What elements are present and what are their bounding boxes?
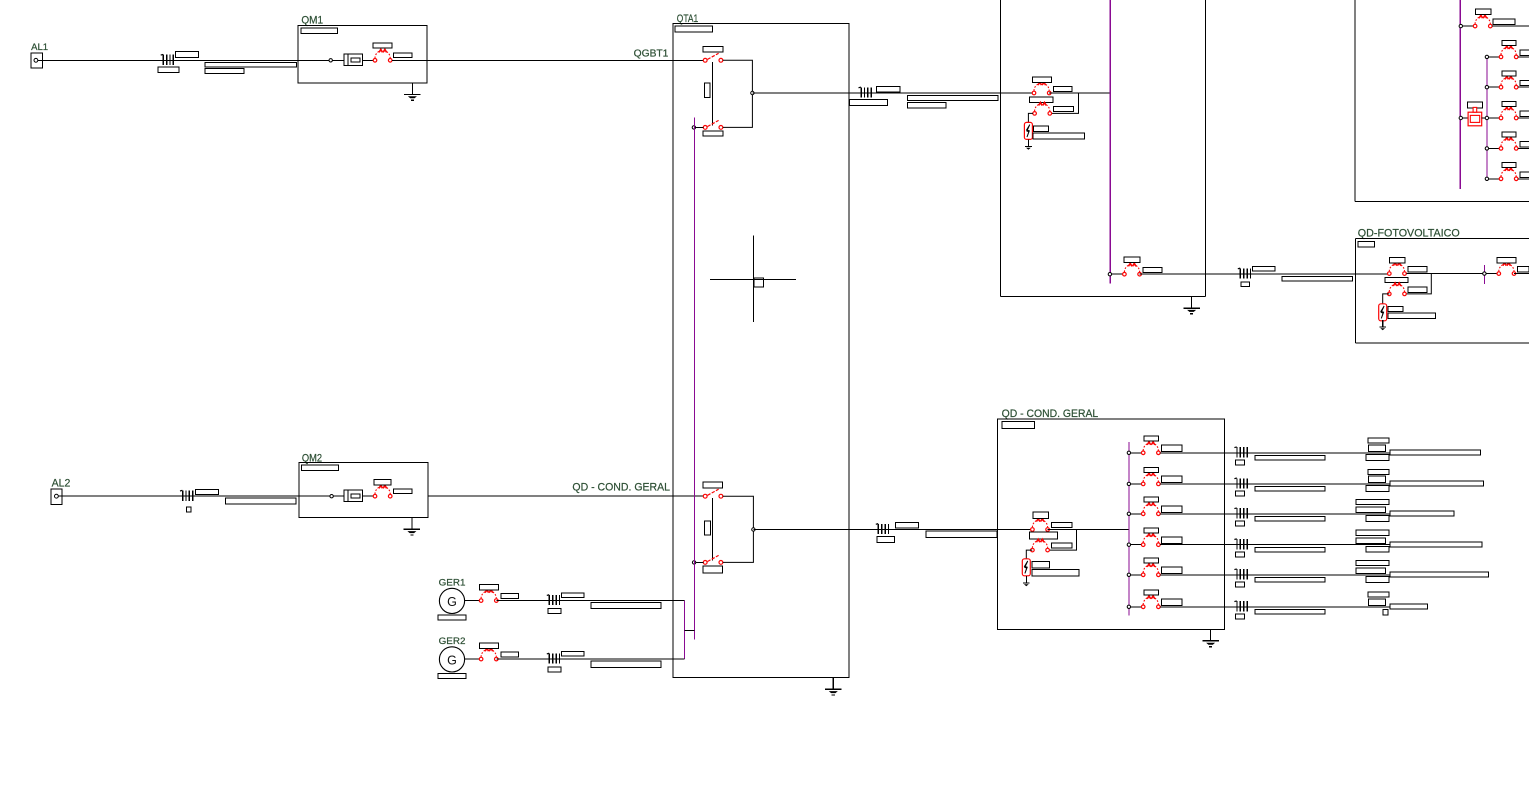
ground DPS fotovoltaico xyxy=(1379,320,1386,330)
transfer switch interlock link xyxy=(712,62,714,125)
panel QTA1 label xyxy=(677,13,698,25)
value label box xyxy=(548,609,561,614)
value label box xyxy=(1161,476,1182,482)
wire upper row 6 out xyxy=(1518,178,1529,180)
value label box xyxy=(1390,481,1484,486)
value label box xyxy=(1032,570,1079,577)
wire fotovoltaico main to stub xyxy=(1406,273,1497,275)
value label box xyxy=(501,652,519,657)
generator GER1 label xyxy=(439,578,466,589)
wire QD-COND row 1 in xyxy=(1131,452,1142,454)
value label box xyxy=(1368,599,1385,606)
junction on AL2 feeder xyxy=(330,495,333,498)
value label box xyxy=(1388,313,1435,318)
value label box xyxy=(1520,80,1529,85)
panel QTA1 enclosure xyxy=(673,24,849,678)
panel QD-FOTOVOLTAICO label xyxy=(1358,228,1460,240)
value label box xyxy=(1030,97,1054,103)
value label box xyxy=(1502,162,1516,167)
ground DPS QD-COND xyxy=(1023,576,1030,586)
svg-text:AL2: AL2 xyxy=(52,478,71,490)
bus QGBT distribution bus xyxy=(1109,0,1111,284)
junction fotovoltaico stub xyxy=(1483,272,1486,275)
value label box xyxy=(1356,538,1386,544)
transfer switch lower coil box xyxy=(705,521,711,535)
value label box xyxy=(703,566,723,573)
value label box xyxy=(1368,469,1389,474)
value label box xyxy=(1356,499,1389,504)
value label box xyxy=(1390,450,1481,455)
wire QD-COND row 6 out xyxy=(1160,606,1428,608)
value label box xyxy=(186,507,191,512)
current transformer QD-COND input xyxy=(876,524,889,535)
value label box xyxy=(1255,456,1325,461)
junction QGBT bus to fotovoltaico xyxy=(1108,273,1111,276)
current transformer GER2 xyxy=(547,653,560,664)
value label box xyxy=(226,498,297,504)
value label box xyxy=(1390,542,1482,547)
value label box xyxy=(195,490,218,495)
value label box xyxy=(1502,132,1516,137)
junction on AL1 feeder xyxy=(329,59,332,62)
svg-text:QD-FOTOVOLTAICO: QD-FOTOVOLTAICO xyxy=(1358,228,1460,240)
value label box xyxy=(1520,50,1529,55)
value label box xyxy=(877,537,895,543)
junction QTA1 output xyxy=(751,91,754,94)
transfer switch coil box xyxy=(704,83,710,97)
circuit breaker QD-COND row 5 xyxy=(1141,564,1160,577)
value label box xyxy=(1385,278,1408,283)
energy meter kWh QM1 xyxy=(344,54,363,65)
wire GER1 breaker to bus xyxy=(496,600,684,602)
wire QD-COND row 4 out xyxy=(1160,544,1482,546)
panel QGBT enclosure xyxy=(1001,0,1206,297)
circuit breaker QD-COND row 1 xyxy=(1141,442,1160,455)
value label box xyxy=(158,67,179,73)
wire upper row 4 out xyxy=(1518,117,1529,119)
value label box xyxy=(1390,511,1454,516)
value label box xyxy=(374,480,391,486)
value label box xyxy=(703,131,723,136)
junction QD-COND bus row 6 xyxy=(1127,605,1130,608)
value label box xyxy=(1143,267,1162,272)
svg-text:QM1: QM1 xyxy=(301,15,323,27)
circuit breaker QD-COND row 4 xyxy=(1141,534,1160,547)
junction standby input QTA1 xyxy=(692,126,695,129)
value label box xyxy=(703,46,723,52)
energy meter kWh QM2 xyxy=(344,490,363,501)
value label box xyxy=(438,615,466,620)
current transformer GER1 xyxy=(547,595,560,606)
value label box xyxy=(1252,266,1274,271)
value label box xyxy=(1358,242,1375,247)
wire QTA1 output to QD-COND.GERAL xyxy=(753,529,1032,531)
value label box xyxy=(438,673,466,678)
value label box xyxy=(1356,507,1386,513)
current transformer QD-COND row 5 xyxy=(1234,569,1247,580)
generator GER2 label xyxy=(439,636,466,647)
wire QGBT bus to breaker xyxy=(1112,273,1123,275)
transfer switch QTA1 standby contact xyxy=(703,120,723,129)
wire QD-COND row 3 in xyxy=(1131,513,1142,515)
circuit breaker fotovoltaico DPS xyxy=(1388,283,1407,296)
value label box xyxy=(1366,486,1389,492)
svg-text:QGBT1: QGBT1 xyxy=(634,49,669,60)
value label box xyxy=(1366,516,1389,522)
value label box xyxy=(1235,582,1244,587)
value label box xyxy=(1366,577,1389,583)
node AL1 label xyxy=(31,42,48,53)
value label box xyxy=(1144,436,1159,441)
value label box xyxy=(1124,257,1140,262)
current transformer QD-COND row 2 xyxy=(1234,478,1247,489)
wire fotovoltaico feeder xyxy=(1140,273,1390,275)
value label box xyxy=(591,602,661,608)
value label box xyxy=(1053,107,1073,112)
junction QD-COND bus row 4 xyxy=(1127,543,1130,546)
value label box xyxy=(479,585,498,590)
surge protector DPS QGBT xyxy=(1024,122,1032,139)
wire DPS down link xyxy=(1028,113,1033,122)
value label box xyxy=(1241,282,1249,287)
value label box xyxy=(1502,71,1516,76)
value label box xyxy=(1408,267,1427,273)
value label box xyxy=(896,523,919,528)
panel QM2 label xyxy=(302,453,322,465)
circuit breaker QD-FOTOVOLTAICO main xyxy=(1388,263,1407,276)
circuit breaker QM1 xyxy=(373,49,392,62)
wire meter to breaker QM2 xyxy=(363,495,374,497)
transfer switch QTA1 lower standby contact xyxy=(703,555,723,564)
surge protector DPS QD-COND xyxy=(1022,559,1030,576)
current transformer QD-COND row 1 xyxy=(1234,447,1247,458)
circuit breaker QD-COND main xyxy=(1031,519,1050,532)
wire DPS down link xyxy=(1383,294,1390,304)
value label box xyxy=(501,594,519,599)
value label box xyxy=(1255,610,1325,615)
value label box xyxy=(1368,476,1385,483)
panel QM1 enclosure xyxy=(298,26,427,83)
wire AL2 to QM2 xyxy=(58,495,344,497)
bus generator standby riser xyxy=(693,118,695,640)
value label box xyxy=(1161,506,1182,512)
circuit breaker QD-COND DPS xyxy=(1031,539,1050,552)
node AL1 supply terminal xyxy=(31,53,43,68)
value label box xyxy=(907,96,998,101)
value label box xyxy=(1144,590,1159,595)
ground QD-COND.GERAL xyxy=(1202,629,1218,646)
node AL2 supply terminal xyxy=(51,489,62,505)
value label box xyxy=(1144,558,1159,563)
value label box xyxy=(1390,604,1428,609)
junction upper bus row 3 xyxy=(1485,86,1488,89)
value label box xyxy=(1235,460,1244,465)
junction QD-COND bus row 3 xyxy=(1127,512,1130,515)
panel QD-COND.GERAL enclosure xyxy=(998,419,1225,629)
value label box xyxy=(1235,521,1244,526)
wire GER2 to breaker xyxy=(465,658,480,660)
value label box xyxy=(1002,421,1035,428)
wire upper row 1 out xyxy=(1492,25,1529,27)
wire upper row 3 out xyxy=(1518,86,1529,88)
wire bus tie link xyxy=(684,629,694,631)
panel QD-FOTOVOLTAICO enclosure xyxy=(1356,239,1529,344)
surge protector DPS fotovoltaico xyxy=(1379,304,1387,321)
value label box xyxy=(1502,102,1516,107)
value label box xyxy=(205,68,244,73)
wire DPS down link xyxy=(1026,550,1032,559)
bus upper main bus xyxy=(1459,0,1461,189)
value label box xyxy=(1144,467,1159,472)
junction QTA1 lower output xyxy=(752,528,755,531)
bus upper sub bus xyxy=(1486,56,1488,181)
svg-text:G: G xyxy=(447,653,457,667)
value label box xyxy=(1161,567,1182,573)
wire fotovoltaico DPS branch link xyxy=(1406,274,1431,294)
value label box xyxy=(1368,592,1389,597)
value label box xyxy=(393,53,412,58)
current transformer CT on AL1 feeder xyxy=(161,54,174,65)
transfer switch QTA1 normal contact xyxy=(703,53,723,62)
value label box xyxy=(301,28,338,34)
svg-text:GER2: GER2 xyxy=(439,636,466,647)
junction upper bus row 2 xyxy=(1485,55,1488,58)
bus QD-COND distribution bus xyxy=(1128,442,1130,616)
circuit breaker fotovoltaico out xyxy=(1497,263,1516,276)
wire QD-COND row 4 in xyxy=(1131,544,1142,546)
junction upper bus row 4 xyxy=(1485,116,1488,119)
value label box xyxy=(1388,307,1403,312)
value label box xyxy=(926,531,997,538)
net QD - COND. GERAL label xyxy=(572,481,670,493)
circuit breaker QGBT DPS xyxy=(1033,103,1052,116)
transfer switch QTA1 lower normal contact xyxy=(703,489,723,498)
value label box xyxy=(1255,487,1325,492)
circuit breaker QD-COND row 2 xyxy=(1141,473,1160,486)
value label box xyxy=(1520,111,1529,116)
wire upper row 3 in xyxy=(1489,86,1500,88)
value label box xyxy=(1408,287,1427,292)
circuit breaker GER1 xyxy=(479,590,498,603)
value label box xyxy=(591,661,661,667)
wire QD-COND row 5 in xyxy=(1131,574,1142,576)
panel QM2 enclosure xyxy=(299,462,428,517)
circuit breaker upper row 2 xyxy=(1499,46,1518,59)
value label box xyxy=(1383,610,1388,616)
current transformer QGBT input xyxy=(859,87,872,98)
node AL2 label xyxy=(52,478,71,490)
wire QD-COND main to bus xyxy=(1048,529,1129,531)
bus generator tie xyxy=(683,601,685,660)
wire QM2 to QTA1 lower switch xyxy=(428,495,703,497)
value label box xyxy=(175,52,198,58)
value label box xyxy=(1161,599,1182,605)
wire meter link xyxy=(1463,117,1469,119)
wire upper row 2 out xyxy=(1518,56,1529,58)
circuit breaker upper row 1 xyxy=(1473,15,1492,28)
circuit breaker QD-COND row 6 xyxy=(1141,596,1160,609)
value label box xyxy=(1255,547,1325,552)
junction lower standby input xyxy=(692,561,695,564)
value label box xyxy=(1493,19,1515,25)
wire QTA1 output to QGBT xyxy=(752,92,1034,94)
value label box xyxy=(1255,517,1325,522)
wire upper row 1 in xyxy=(1463,25,1474,27)
value label box xyxy=(1517,267,1529,273)
value label box xyxy=(1368,445,1385,452)
circuit breaker QM2 xyxy=(373,485,392,498)
bus fotovoltaico stub xyxy=(1483,265,1485,284)
junction upper main bus meter xyxy=(1459,116,1462,119)
wire AL1 to QM1 meter xyxy=(38,59,344,61)
wire QD-COND row 3 out xyxy=(1160,513,1454,515)
value label box xyxy=(1282,277,1353,281)
value label box xyxy=(1356,560,1389,565)
ground QTA1 xyxy=(825,678,841,695)
wire upper row 4 in xyxy=(1489,117,1500,119)
svg-text:AL1: AL1 xyxy=(31,42,48,53)
ground QM2 xyxy=(404,518,420,535)
value label box xyxy=(302,465,339,471)
wire standby stub xyxy=(696,126,704,128)
value label box xyxy=(562,593,584,598)
wire transfer output link xyxy=(723,60,753,127)
value label box xyxy=(675,26,712,32)
value label box xyxy=(1467,102,1482,108)
value label box xyxy=(1033,512,1049,519)
net QGBT1 label xyxy=(634,49,669,60)
generator GER1 xyxy=(439,588,464,613)
value label box xyxy=(1235,614,1244,619)
wire lower transfer output link xyxy=(723,496,754,562)
wire lower standby stub xyxy=(696,561,704,563)
value label box xyxy=(393,489,412,494)
value label box xyxy=(1235,552,1244,557)
value label box xyxy=(1235,491,1244,496)
circuit breaker QGBT main xyxy=(1032,82,1051,95)
junction upper bus row 1 xyxy=(1459,24,1462,27)
ground DPS QGBT xyxy=(1025,140,1032,150)
wire upper row 5 out xyxy=(1518,147,1529,149)
circuit breaker upper row 6 xyxy=(1499,168,1518,181)
current transformer QD-COND row 3 xyxy=(1234,508,1247,519)
circuit breaker GER2 xyxy=(479,648,498,661)
wire upper row 2 in xyxy=(1489,56,1500,58)
value label box xyxy=(373,43,392,48)
meter multimeter upper board xyxy=(1468,107,1482,125)
panel QM1 label xyxy=(301,15,323,27)
value label box xyxy=(1161,445,1182,451)
value label box xyxy=(205,62,296,67)
wire QM1 breaker to QTA1 xyxy=(392,59,703,61)
value label box xyxy=(1520,172,1529,177)
current transformer AL2 feeder xyxy=(180,490,193,501)
wire QD-COND row 2 in xyxy=(1131,483,1142,485)
wire QGBT main to bus xyxy=(1049,92,1110,94)
wire QD-COND row 5 out xyxy=(1160,574,1488,576)
value label box xyxy=(1052,523,1072,528)
transfer switch lower interlock link xyxy=(712,498,714,560)
value label box xyxy=(1356,530,1389,535)
svg-text:QD - COND. GERAL: QD - COND. GERAL xyxy=(1002,408,1099,420)
current transformer fotovoltaico feeder xyxy=(1238,268,1251,279)
value label box xyxy=(1053,87,1071,92)
wire QD-COND row 2 out xyxy=(1160,483,1484,485)
wire QGBT DPS branch link xyxy=(1051,93,1078,113)
circuit breaker upper row 5 xyxy=(1499,138,1518,151)
value label box xyxy=(1144,497,1159,502)
value label box xyxy=(562,652,584,657)
ground QM1 xyxy=(404,83,420,100)
value label box xyxy=(548,667,561,672)
value label box xyxy=(1052,543,1072,548)
value label box xyxy=(1030,532,1058,539)
wire upper row 5 in xyxy=(1489,147,1500,149)
svg-text:GER1: GER1 xyxy=(439,578,466,589)
value label box xyxy=(1368,438,1389,443)
junction QD-COND bus row 2 xyxy=(1127,482,1130,485)
generator GER2 xyxy=(439,647,464,672)
value label box xyxy=(1366,547,1389,553)
value label box xyxy=(1255,578,1325,583)
value label box xyxy=(876,86,900,92)
wire fotovoltaico out xyxy=(1514,273,1529,275)
value label box xyxy=(1161,537,1182,543)
junction QD-COND bus row 1 xyxy=(1127,451,1130,454)
junction QD-COND bus row 5 xyxy=(1127,573,1130,576)
value label box xyxy=(1389,257,1405,263)
value label box xyxy=(1497,257,1516,263)
value label box xyxy=(1144,528,1159,533)
node reference marker xyxy=(710,236,796,322)
value label box xyxy=(1033,126,1048,132)
circuit breaker upper row 4 xyxy=(1499,107,1518,120)
ground QGBT xyxy=(1183,297,1199,314)
value label box xyxy=(1390,572,1488,577)
svg-text:QD - COND. GERAL: QD - COND. GERAL xyxy=(572,481,670,493)
current transformer QD-COND row 4 xyxy=(1234,539,1247,550)
svg-text:G: G xyxy=(447,595,457,609)
value label box xyxy=(703,482,723,488)
value label box xyxy=(1366,455,1389,461)
wire QD-COND row 1 out xyxy=(1160,452,1481,454)
circuit breaker QD-COND row 3 xyxy=(1141,503,1160,516)
value label box xyxy=(1032,77,1051,83)
value label box xyxy=(1033,133,1085,139)
panel QD - COND. GERAL label xyxy=(1002,408,1099,420)
current transformer QD-COND row 6 xyxy=(1234,601,1247,612)
value label box xyxy=(1502,41,1516,46)
wire QD-COND row 6 in xyxy=(1131,606,1142,608)
circuit breaker upper row 3 xyxy=(1499,76,1518,89)
value label box xyxy=(850,99,888,105)
wire GER2 breaker to bus xyxy=(496,658,684,660)
circuit breaker fotovoltaico feeder xyxy=(1123,263,1142,276)
wire upper row 6 in xyxy=(1489,178,1500,180)
panel upper distribution enclosure xyxy=(1355,0,1529,202)
junction upper bus row 6 xyxy=(1485,177,1488,180)
value label box xyxy=(1520,142,1529,147)
wire GER1 to breaker xyxy=(465,600,480,602)
junction upper bus row 5 xyxy=(1485,147,1488,150)
value label box xyxy=(479,643,498,648)
value label box xyxy=(1356,568,1386,574)
value label box xyxy=(907,102,946,108)
value label box xyxy=(1032,561,1049,568)
wire QD-COND DPS branch link xyxy=(1050,530,1077,551)
wire meter to breaker QM1 xyxy=(363,59,374,61)
wire meter to sub bus xyxy=(1482,117,1486,119)
